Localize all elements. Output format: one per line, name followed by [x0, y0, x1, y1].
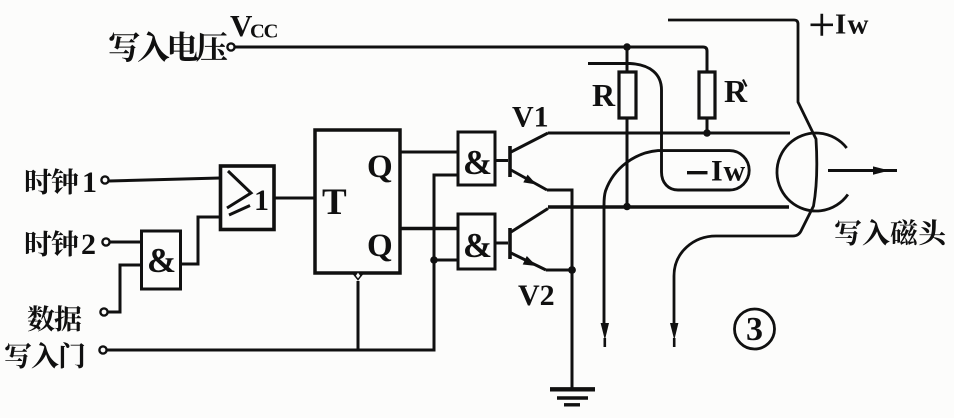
wire: data input up to AND gate U2 input	[108, 265, 141, 312]
transistor V2 base bar	[508, 228, 512, 259]
wire: write-gate tap to T clock input	[357, 281, 360, 350]
junction: write-gate enable to AND U5	[430, 256, 438, 264]
T flip-flop U3 box	[315, 130, 400, 273]
AND gate U5 box (lower driver)	[458, 214, 495, 269]
terminal: clock1 input	[101, 176, 108, 183]
svg-text:1: 1	[254, 184, 269, 217]
terminal: clock2 input	[102, 238, 109, 245]
negative write current -Iw loop path	[588, 64, 749, 327]
flux arrowhead	[873, 166, 890, 174]
svg-text:T: T	[322, 182, 347, 223]
junction: R' bottom on V1 collector line	[703, 129, 711, 137]
AND gate U2 box	[142, 231, 181, 289]
wire: AND U2 output to OR gate input	[181, 217, 220, 264]
label 时钟1 (clock 1)	[26, 168, 78, 194]
wire: common node to ground	[571, 270, 574, 389]
svg-text:&: &	[147, 241, 176, 280]
svg-text:R: R	[592, 77, 616, 113]
transistor V1 collector	[511, 133, 548, 152]
svg-text:w: w	[724, 155, 746, 188]
transistor V1 emitter arrowhead	[523, 175, 536, 185]
svg-text:R: R	[724, 73, 748, 109]
label 写入磁头 (write head)	[835, 219, 945, 245]
wire: clock2 to AND gate U2 input	[110, 241, 141, 244]
wire: V1 emitter to common node	[547, 190, 572, 270]
T flip-flop clock dynamic-input mark	[352, 273, 364, 281]
terminal: data input	[100, 308, 107, 315]
resistor R' (right)	[699, 72, 715, 118]
transistor V1 base bar	[508, 146, 512, 177]
transistor V2 collector	[511, 209, 548, 233]
label 数据 (data)	[28, 305, 82, 331]
wire: Vcc rail from terminal to right resistor branch	[235, 47, 707, 72]
OR gate U1 qualifier greater-equal symbol	[227, 171, 251, 208]
transistor V1 base wire	[495, 159, 508, 162]
junction: Vcc rail to left resistor R	[623, 43, 631, 51]
svg-text:I: I	[711, 155, 723, 188]
AND gate U4 box (upper driver)	[458, 132, 495, 185]
svg-text:V2: V2	[518, 279, 555, 312]
wire: Q output to AND U4 input	[400, 151, 458, 154]
wire: V1 collector line to write head	[548, 132, 790, 135]
resistor R (left)	[619, 72, 636, 118]
svg-text:w: w	[848, 9, 869, 41]
+Iw loop arrowhead	[670, 323, 678, 340]
wire: Vcc junction down to resistor R top	[626, 47, 629, 72]
svg-text:&: &	[463, 226, 492, 265]
wire: V2 collector line to write head	[548, 205, 789, 208]
wire: write-gate line to AND gates enable	[107, 175, 458, 350]
write head core ring (gapped circle)	[777, 133, 848, 211]
transistor V2 emitter arrowhead	[523, 256, 537, 266]
-Iw loop arrowhead	[601, 323, 609, 340]
figure number 3 circle	[735, 309, 775, 349]
svg-text:Q: Q	[367, 149, 393, 185]
wire: enable branch to AND U5 input	[434, 259, 458, 262]
svg-text:1: 1	[82, 166, 97, 199]
terminal: write-gate input	[99, 346, 106, 353]
wire: resistor R bottom to V2 collector line	[626, 118, 629, 206]
svg-text:3: 3	[746, 311, 763, 348]
wire: V2 emitter to common node	[546, 269, 572, 272]
flux output arrow	[828, 169, 897, 172]
wire: OR U1 output to T flip-flop input	[274, 197, 315, 200]
svg-text:2: 2	[81, 228, 96, 261]
label 写入门 (write gate)	[5, 342, 84, 368]
junction: R bottom on V2 collector line	[623, 203, 631, 211]
transistor V2 base wire	[495, 242, 508, 245]
label 写入电压 (write voltage)	[109, 31, 227, 62]
wire: clock1 to OR gate input	[109, 178, 220, 181]
terminal: write-voltage input node	[227, 43, 234, 50]
label -Iw inside loop	[687, 171, 708, 174]
OR gate U1 box	[221, 166, 275, 230]
ground symbol	[550, 387, 595, 391]
transistor V2 emitter	[511, 253, 546, 270]
label 时钟2 (clock 2)	[26, 230, 78, 256]
svg-text:CC: CC	[250, 21, 278, 43]
svg-text:Q: Q	[367, 228, 393, 264]
svg-text:I: I	[835, 9, 846, 41]
svg-text:V1: V1	[512, 101, 549, 134]
junction: emitter common node	[568, 266, 576, 274]
svg-text:&: &	[463, 143, 492, 182]
positive write current +Iw loop path	[668, 20, 817, 326]
wire: resistor R' bottom to V1 collector line	[706, 118, 709, 133]
label +Iw	[811, 14, 834, 36]
wire: Qbar output to AND U5 input	[400, 227, 458, 230]
transistor V1 emitter	[511, 170, 547, 190]
